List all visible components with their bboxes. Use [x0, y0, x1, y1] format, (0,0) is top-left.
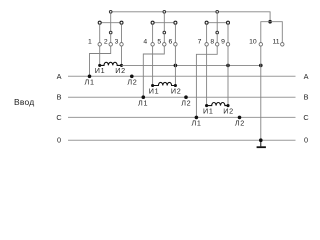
wire terminal 5 tap to phase B [143, 46, 164, 97]
dot I2 of TA3 [226, 104, 229, 107]
svg-text:И1: И1 [149, 86, 160, 95]
terminal 8 [215, 43, 218, 46]
dot I1 of TA1 [98, 64, 101, 67]
middle jack group2 [163, 31, 166, 34]
phase bus A [68, 75, 296, 77]
jumper circle above terminal 4 [151, 21, 154, 24]
wire terminal 3 to TA1 secondary [121, 46, 123, 65]
svg-text:8: 8 [210, 38, 214, 45]
svg-text:4: 4 [143, 38, 147, 45]
terminal 7 [205, 43, 208, 46]
svg-text:И2: И2 [223, 106, 234, 115]
svg-text:6: 6 [169, 38, 173, 45]
terminal 4 [151, 43, 154, 46]
TA1 secondary winding I1-I2 [100, 62, 122, 65]
terminal 6 [174, 43, 177, 46]
wire jumper to terminal 3 [121, 24, 123, 42]
wire bus to middle jack group2 [163, 13, 165, 31]
wire terminal 6 to TA2 secondary [174, 46, 176, 85]
middle jack group1 [109, 31, 112, 34]
wire bus to middle jack group3 [216, 13, 218, 31]
dot I1 of TA3 [205, 104, 208, 107]
terminal 2 [109, 43, 112, 46]
common I2 return wire [122, 64, 261, 66]
junction dot common wire at terminal 6 drop [174, 64, 178, 68]
svg-text:11: 11 [272, 38, 279, 45]
svg-text:Л2: Л2 [127, 78, 137, 87]
junction dot on 10/11 link [268, 20, 272, 24]
terminal 11 [281, 43, 284, 46]
svg-text:Л2: Л2 [181, 98, 191, 107]
junction dot on neutral [259, 138, 263, 142]
junction dot L1 phase A [88, 75, 92, 79]
dot I1 of TA2 [151, 84, 154, 87]
wire terminal 8 tap to phase C [196, 46, 217, 117]
jumper wire group3 [207, 22, 228, 24]
svg-text:Ввод: Ввод [14, 97, 34, 107]
terminal 3 [120, 43, 123, 46]
wire jumper to terminal 4 [152, 24, 154, 42]
wire middle jack to terminal 8 [216, 34, 218, 42]
svg-text:С: С [56, 113, 61, 122]
junction dot L1 phase C [195, 116, 199, 120]
svg-text:1: 1 [88, 38, 92, 45]
wire terminal 10 to neutral [260, 46, 262, 140]
svg-text:Л1: Л1 [138, 98, 148, 107]
neutral bus 0 [68, 139, 296, 141]
top voltage bus wire [111, 12, 270, 22]
phase bus C [68, 116, 296, 118]
wire jumper to terminal 7 [206, 24, 208, 42]
jumper circle above terminal 6 [174, 21, 177, 24]
junction dot L2 phase B [184, 95, 188, 99]
svg-text:И2: И2 [115, 66, 126, 75]
wire bus to middle jack group1 [110, 13, 112, 31]
svg-text:3: 3 [115, 38, 119, 45]
wire jumper to terminal 9 [227, 24, 229, 42]
middle jack group3 [216, 31, 219, 34]
dot I2 of TA1 [120, 64, 123, 67]
phase bus B [68, 96, 296, 98]
terminal 1 [98, 43, 101, 46]
junction dot L2 phase C [238, 116, 242, 120]
wire link of terminals 10 and 11 [261, 22, 283, 43]
jumper circle above terminal 3 [120, 21, 123, 24]
wire jumper to terminal 6 [174, 24, 176, 42]
terminal 10 [259, 43, 262, 46]
TA3 secondary winding I1-I2 [207, 102, 228, 105]
svg-text:10: 10 [249, 38, 257, 45]
wire terminal 2 tap to phase A [90, 46, 111, 76]
test jack top group3 [216, 11, 219, 14]
terminal 5 [163, 43, 166, 46]
svg-text:А: А [304, 72, 309, 81]
svg-text:В: В [304, 93, 309, 102]
dot I2 of TA2 [174, 84, 177, 87]
svg-text:0: 0 [304, 136, 308, 145]
svg-text:И2: И2 [171, 86, 182, 95]
wire terminal 7 to TA3 secondary [206, 46, 208, 105]
wire jumper to terminal 1 [99, 24, 101, 42]
ground stub wire [260, 140, 262, 146]
wire terminal 9 to TA3 secondary [227, 46, 229, 105]
svg-text:Л1: Л1 [85, 78, 95, 87]
svg-text:0: 0 [57, 136, 61, 145]
junction dot common wire at terminal 9 drop [226, 64, 230, 68]
wire terminal 1 to TA1 secondary [99, 46, 101, 65]
svg-text:5: 5 [157, 38, 161, 45]
junction dot L1 phase B [142, 95, 146, 99]
svg-text:7: 7 [198, 38, 202, 45]
svg-text:И1: И1 [203, 106, 214, 115]
svg-text:Л1: Л1 [191, 119, 201, 128]
svg-text:В: В [57, 93, 62, 102]
wire middle jack to terminal 2 [110, 34, 112, 42]
jumper wire group1 [100, 22, 122, 24]
TA2 secondary winding I1-I2 [153, 82, 176, 85]
test jack top group1 [109, 11, 112, 14]
jumper wire group2 [153, 22, 176, 24]
wire terminal 4 to TA2 secondary [152, 46, 154, 85]
svg-text:С: С [303, 113, 308, 122]
wire middle jack to terminal 5 [163, 34, 165, 42]
svg-text:Л2: Л2 [235, 119, 245, 128]
svg-text:2: 2 [104, 38, 108, 45]
svg-text:А: А [57, 72, 62, 81]
junction dot L2 phase A [130, 75, 134, 79]
jumper circle above terminal 1 [98, 21, 101, 24]
jumper circle above terminal 7 [205, 21, 208, 24]
terminal 9 [226, 43, 229, 46]
ground bar [257, 146, 266, 148]
svg-text:И1: И1 [95, 66, 106, 75]
jumper circle above terminal 9 [227, 21, 230, 24]
test jack top group2 [163, 11, 166, 14]
svg-text:9: 9 [221, 38, 225, 45]
junction dot common wire at terminal 10 drop [259, 64, 263, 68]
